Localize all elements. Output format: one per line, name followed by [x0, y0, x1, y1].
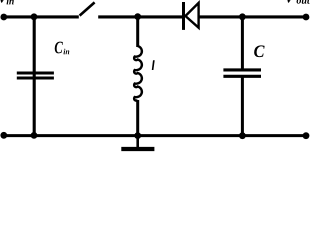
capacitor Cin label C: [55, 42, 63, 54]
wire bottom rail: [4, 134, 306, 137]
inductor L coil: [134, 46, 142, 101]
wire middle branch bottom stem: [136, 100, 139, 136]
node dot top C junction: [239, 13, 246, 20]
node dot bottom right: [303, 132, 310, 139]
diode D1 cathode bar: [182, 2, 185, 30]
node dot bottom L junction: [134, 132, 141, 139]
node dot vout: [303, 14, 310, 21]
capacitor C label: [254, 45, 264, 57]
capacitor Cin label subscript in: [63, 49, 69, 55]
node dot vin: [0, 14, 7, 21]
wire top rail right: [199, 15, 306, 18]
ground bar: [121, 147, 154, 151]
node label v_in subscript: [7, 0, 14, 4]
capacitor C bottom plate: [223, 75, 261, 78]
node dot bottom left: [0, 132, 7, 139]
wire right branch lower: [241, 76, 244, 136]
wire left branch vertical: [33, 17, 36, 136]
wire top rail left: [4, 15, 79, 18]
node dot bottom C junction: [239, 132, 246, 139]
inductor L label: [152, 60, 155, 70]
node dot top Cin junction: [31, 13, 38, 20]
diode D1 triangle: [185, 3, 198, 28]
capacitor C top plate: [223, 68, 261, 71]
node label v_in (clipped at top): [0, 0, 6, 3]
node dot top L junction: [134, 13, 141, 20]
wire right branch upper: [241, 17, 244, 70]
switch S1 arm: [80, 2, 95, 15]
capacitor Cin top plate: [17, 72, 54, 75]
wire top rail middle: [98, 15, 184, 18]
capacitor Cin bottom plate: [17, 77, 54, 80]
ground stem: [136, 136, 139, 148]
node label v_out (clipped at top): [286, 0, 292, 3]
wire middle branch top stem: [136, 17, 139, 47]
node dot bottom Cin junction: [31, 132, 38, 139]
node label v_out subscript: [297, 0, 310, 4]
